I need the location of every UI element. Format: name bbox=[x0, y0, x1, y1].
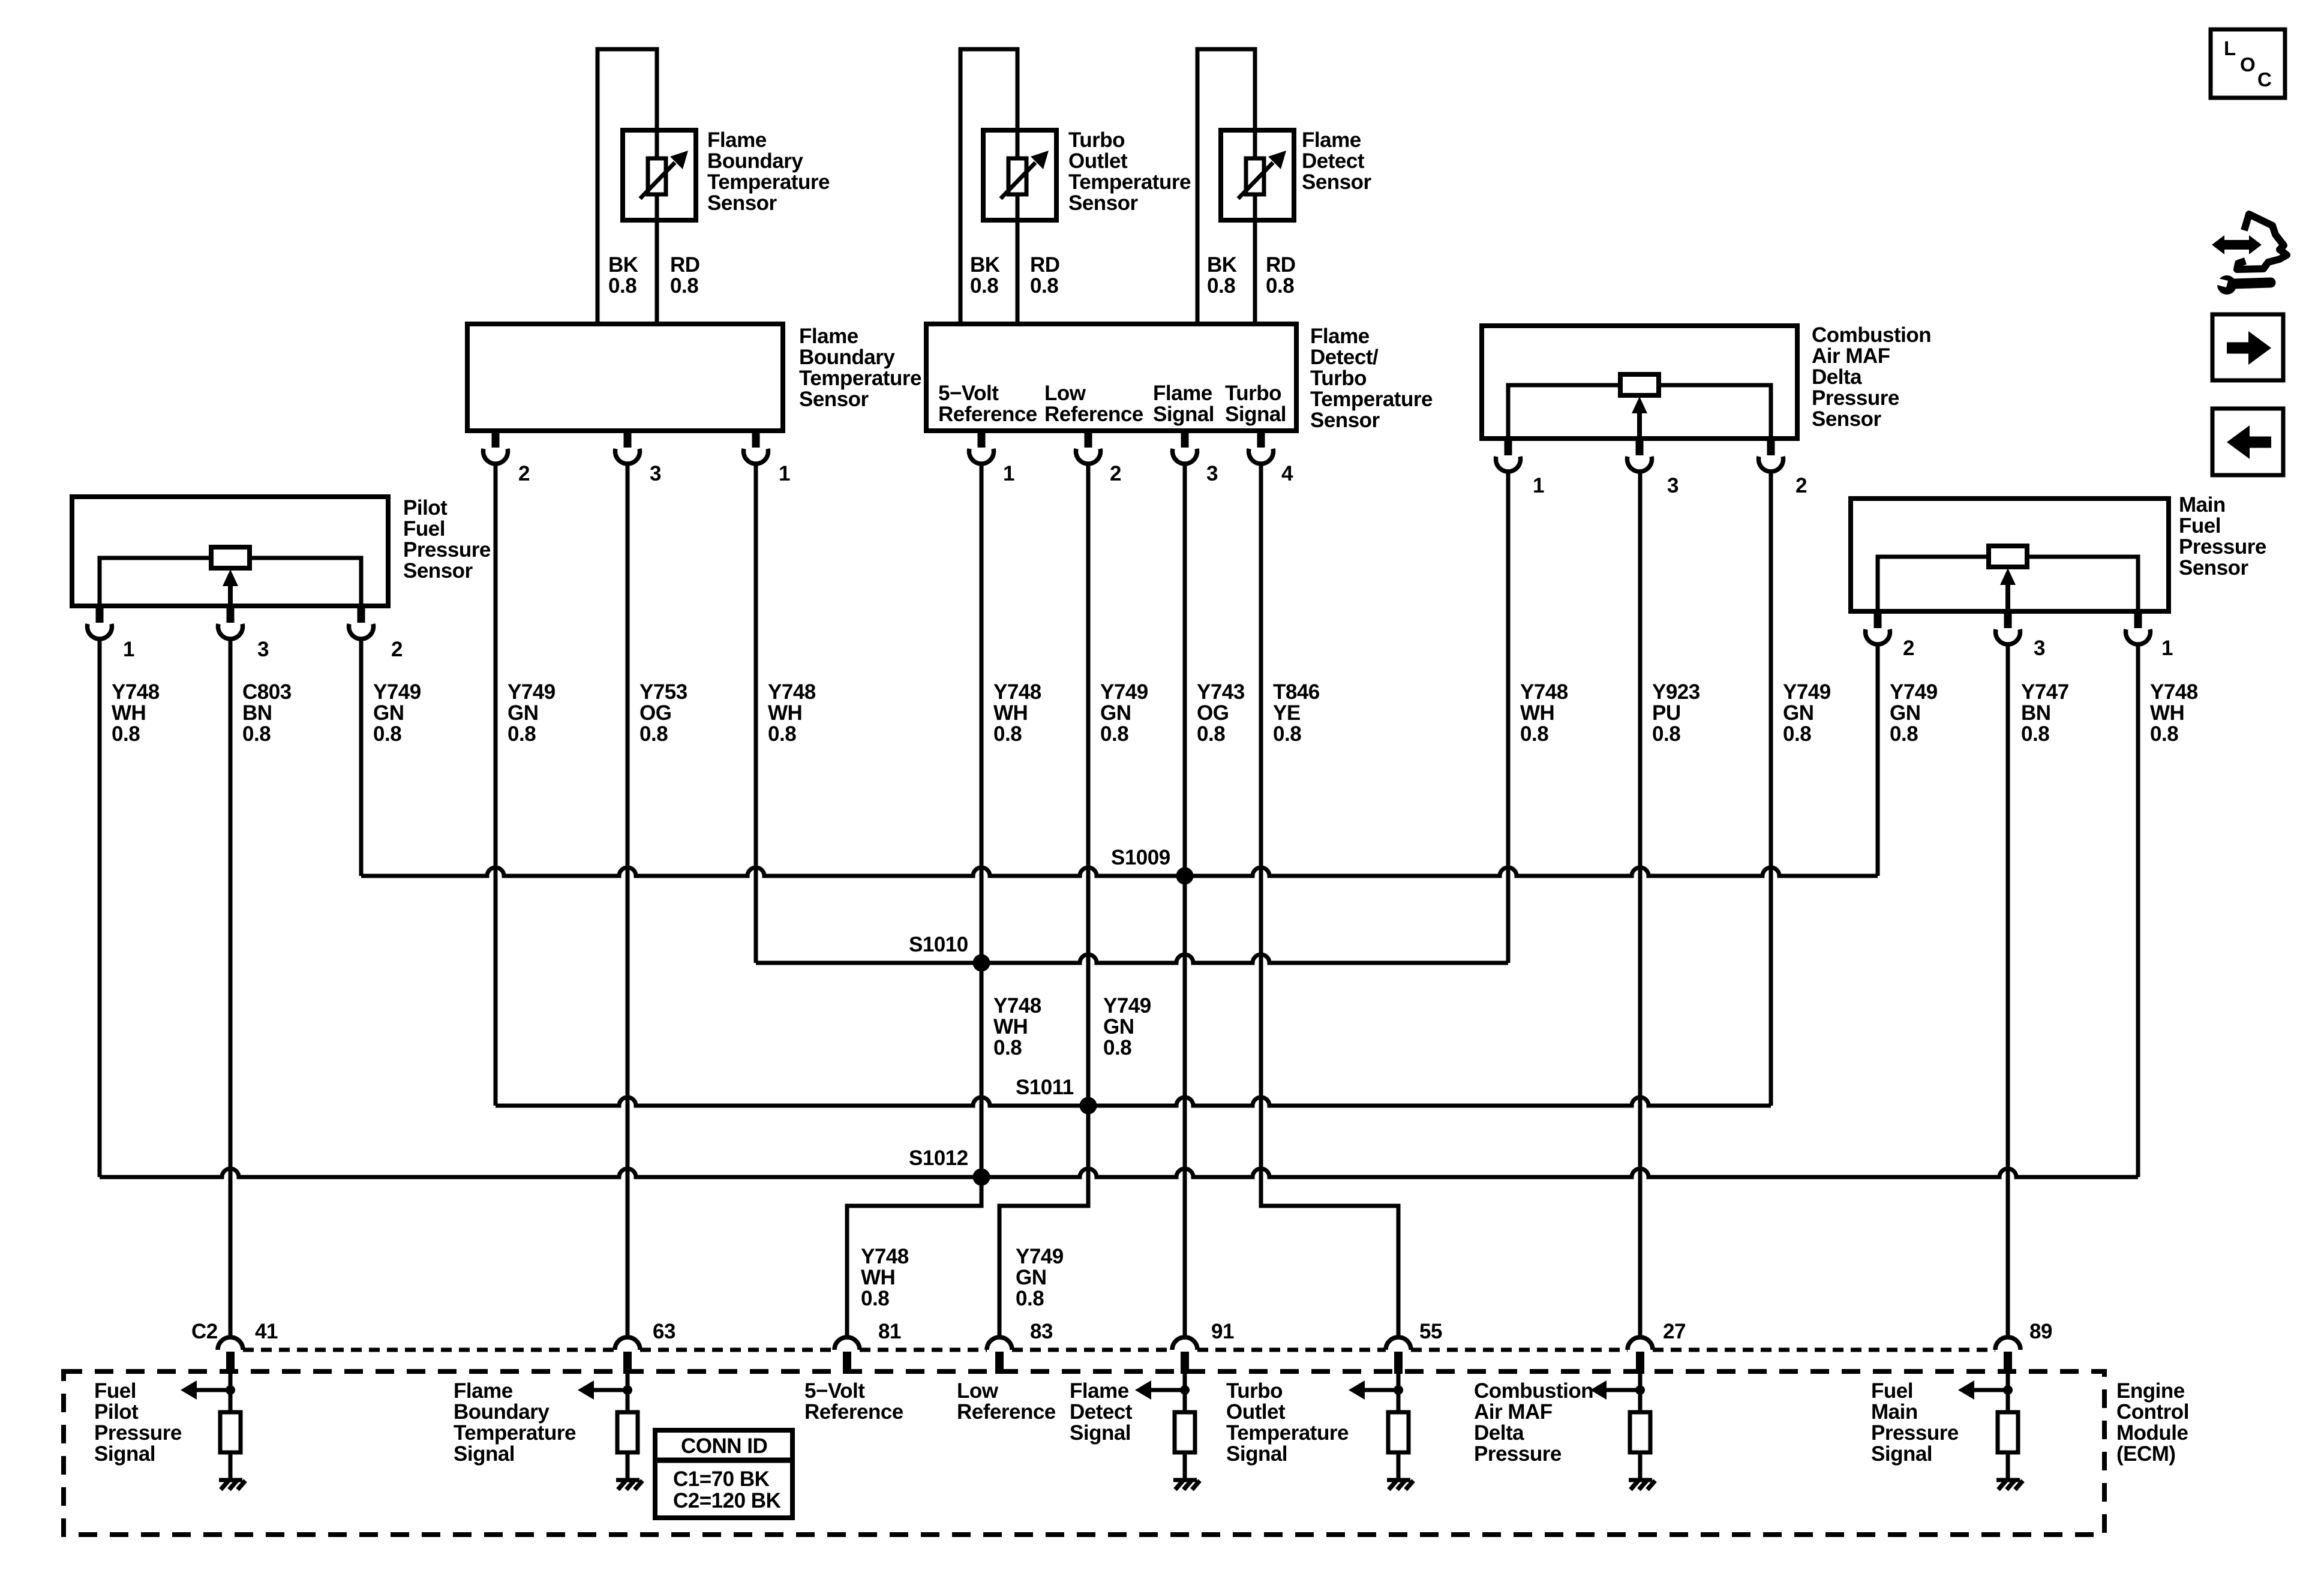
svg-text:Sensor: Sensor bbox=[403, 559, 473, 583]
svg-text:0.8: 0.8 bbox=[373, 722, 401, 746]
ECM signal name low reference bbox=[957, 1379, 1056, 1424]
wire label RD 0.8 (turbo outlet sensor) bbox=[1030, 253, 1060, 298]
svg-text:81: 81 bbox=[878, 1320, 901, 1343]
wire Y748 WH from MAF pin 1 to S1010 bbox=[1506, 472, 1511, 963]
wire loop of flame boundary temperature sensor (BK and RD leads) bbox=[597, 49, 657, 324]
svg-text:GN: GN bbox=[1783, 701, 1814, 725]
thermistor symbol flame detect sensor bbox=[1221, 130, 1294, 220]
svg-text:(ECM): (ECM) bbox=[2116, 1442, 2176, 1466]
svg-text:Outlet: Outlet bbox=[1226, 1400, 1286, 1424]
svg-text:Combustion: Combustion bbox=[1812, 323, 1931, 347]
ECM pin 63 terminal bbox=[615, 1320, 675, 1374]
wire label Y923 PU 0.8 (MAF pin3) bbox=[1652, 680, 1700, 746]
svg-text:0.8: 0.8 bbox=[1273, 722, 1301, 746]
pressure sensor symbol (main) bbox=[1878, 546, 2138, 611]
pin 1 flame detect/turbo connector bbox=[969, 431, 1015, 485]
svg-text:Sensor: Sensor bbox=[1302, 170, 1372, 194]
pin 2 main fuel pressure sensor bbox=[1866, 611, 1915, 660]
svg-text:Y749: Y749 bbox=[1783, 680, 1831, 704]
ECM pin 55 ground bbox=[1387, 1480, 1413, 1490]
wire label Y743 OG 0.8 (FDT pin3) bbox=[1197, 680, 1245, 746]
ECM pin 91 terminal bbox=[1172, 1320, 1234, 1374]
wire label Y748 WH 0.8 (between S1010 and S1012) bbox=[993, 994, 1041, 1059]
svg-text:4: 4 bbox=[1281, 462, 1293, 485]
label engine control module bbox=[2116, 1379, 2189, 1466]
svg-text:Signal: Signal bbox=[1871, 1442, 1932, 1466]
svg-text:Y749: Y749 bbox=[1016, 1245, 1064, 1268]
wire label Y749 GN 0.8 (FBT pin2) bbox=[508, 680, 556, 746]
svg-text:3: 3 bbox=[257, 638, 269, 661]
ECM pin 41 terminal bbox=[218, 1320, 278, 1374]
label flame boundary temperature sensor (connector) bbox=[799, 325, 921, 411]
label turbo outlet temperature sensor bbox=[1068, 128, 1191, 215]
svg-text:Fuel: Fuel bbox=[94, 1379, 136, 1403]
splice bus S1011 (low reference, FBT pin2 to MAF pin2) bbox=[496, 1097, 1771, 1106]
svg-text:0.8: 0.8 bbox=[508, 722, 536, 746]
svg-text:Y749: Y749 bbox=[1100, 680, 1148, 704]
pin 3 MAF delta pressure sensor bbox=[1627, 439, 1679, 497]
svg-text:PU: PU bbox=[1652, 701, 1681, 725]
pin 3 main fuel pressure sensor bbox=[1996, 611, 2046, 660]
svg-text:0.8: 0.8 bbox=[1100, 722, 1128, 746]
engine control module ECM dashed box bbox=[64, 1371, 2104, 1535]
svg-text:Flame: Flame bbox=[1153, 382, 1212, 405]
wire label Y748 WH 0.8 (pilot pin1) bbox=[112, 680, 160, 746]
svg-text:Y748: Y748 bbox=[2150, 680, 2198, 704]
label flame detect sensor bbox=[1302, 128, 1372, 194]
combustion air MAF delta pressure sensor box bbox=[1482, 326, 1797, 439]
ECM pin 91 pull resistor bbox=[1175, 1390, 1195, 1478]
svg-text:YE: YE bbox=[1273, 701, 1301, 725]
svg-text:Engine: Engine bbox=[2116, 1379, 2185, 1403]
ECM pin 27 internal wire and junction dot bbox=[1635, 1374, 1645, 1395]
ECM pin 27 pull resistor bbox=[1630, 1390, 1650, 1478]
ECM pin 55 pull resistor bbox=[1388, 1390, 1409, 1478]
wire label BK 0.8 (turbo outlet sensor) bbox=[970, 253, 1000, 298]
svg-text:S1012: S1012 bbox=[909, 1146, 968, 1170]
svg-text:Y748: Y748 bbox=[993, 994, 1041, 1017]
wire Y749 GN from MAF pin 2 to S1011 bbox=[1769, 472, 1773, 1106]
svg-text:Signal: Signal bbox=[1226, 1442, 1287, 1466]
svg-text:BK: BK bbox=[608, 253, 638, 277]
svg-text:OG: OG bbox=[639, 701, 671, 725]
svg-text:Air MAF: Air MAF bbox=[1812, 344, 1890, 368]
svg-text:Turbo: Turbo bbox=[1068, 128, 1125, 152]
svg-text:Temperature: Temperature bbox=[1310, 388, 1433, 411]
svg-text:Signal: Signal bbox=[1225, 403, 1286, 426]
svg-text:89: 89 bbox=[2029, 1320, 2052, 1343]
wire T846 YE from flame detect/turbo pin 4 jog to ECM pin 55 bbox=[1261, 464, 1398, 1337]
svg-text:OG: OG bbox=[1197, 701, 1229, 725]
wire Y923 PU from MAF pin 3 to ECM pin 27 bbox=[1638, 472, 1643, 1337]
forward arrow icon box bbox=[2212, 314, 2283, 380]
svg-text:Y748: Y748 bbox=[768, 680, 816, 704]
wire label Y748 WH 0.8 (to ECM pin 81) bbox=[861, 1245, 909, 1310]
svg-text:Y748: Y748 bbox=[112, 680, 160, 704]
svg-text:Low: Low bbox=[1044, 382, 1086, 405]
svg-text:GN: GN bbox=[1016, 1266, 1047, 1289]
svg-text:Detect/: Detect/ bbox=[1310, 346, 1379, 369]
svg-text:Y747: Y747 bbox=[2021, 680, 2069, 704]
ECM pin 91 ground bbox=[1173, 1480, 1200, 1490]
wire label C803 BN 0.8 (pilot pin3) bbox=[242, 680, 292, 746]
wire label Y748 WH 0.8 (main pin1) bbox=[2150, 680, 2198, 746]
svg-text:Outlet: Outlet bbox=[1068, 149, 1128, 173]
ECM pin 27 ground bbox=[1629, 1480, 1655, 1490]
splice bus S1010 (5V reference, FBT pin1 to MAF pin1) bbox=[756, 954, 1508, 963]
svg-text:Flame: Flame bbox=[1310, 325, 1370, 348]
svg-text:63: 63 bbox=[653, 1320, 675, 1343]
pin name Turbo Signal bbox=[1225, 382, 1286, 426]
svg-text:Temperature: Temperature bbox=[707, 170, 830, 194]
svg-text:RD: RD bbox=[1030, 253, 1060, 277]
svg-text:C803: C803 bbox=[242, 680, 292, 704]
wire label Y748 WH 0.8 (FBT pin1) bbox=[768, 680, 816, 746]
svg-text:WH: WH bbox=[861, 1266, 895, 1289]
svg-text:C2: C2 bbox=[191, 1320, 218, 1343]
svg-text:0.8: 0.8 bbox=[1207, 274, 1235, 298]
svg-text:0.8: 0.8 bbox=[112, 722, 140, 746]
svg-text:0.8: 0.8 bbox=[1016, 1287, 1044, 1310]
wire Y749 GN from pilot pin 2 to S1009 bbox=[359, 640, 364, 876]
svg-text:BK: BK bbox=[970, 253, 1000, 277]
svg-text:27: 27 bbox=[1663, 1320, 1686, 1343]
svg-text:Main: Main bbox=[1871, 1400, 1918, 1424]
svg-text:BN: BN bbox=[2021, 701, 2051, 725]
svg-text:Boundary: Boundary bbox=[799, 346, 895, 369]
svg-text:GN: GN bbox=[508, 701, 539, 725]
wire label Y749 GN 0.8 (FDT pin2) bbox=[1100, 680, 1148, 746]
svg-text:Reference: Reference bbox=[938, 403, 1037, 426]
LOC location icon box bbox=[2211, 29, 2285, 98]
svg-text:Flame: Flame bbox=[1302, 128, 1361, 152]
ECM pin 63 ground bbox=[616, 1480, 642, 1490]
wire Y749 GN from flame detect/turbo pin 2 jog to ECM pin 83 bbox=[999, 464, 1088, 1337]
svg-text:0.8: 0.8 bbox=[1266, 274, 1294, 298]
wire Y743 OG from flame detect pin 3 to ECM pin 91 bbox=[1183, 464, 1187, 1337]
svg-text:Detect: Detect bbox=[1302, 149, 1365, 173]
ECM pin 27 signal arrow bbox=[1590, 1380, 1640, 1400]
svg-text:0.8: 0.8 bbox=[670, 274, 698, 298]
svg-text:Sensor: Sensor bbox=[1812, 407, 1882, 431]
splice S1010 junction dot bbox=[973, 954, 990, 972]
svg-text:GN: GN bbox=[1890, 701, 1921, 725]
ECM pin 63 internal wire and junction dot bbox=[623, 1374, 632, 1395]
svg-text:WH: WH bbox=[768, 701, 802, 725]
pin 3 pilot fuel pressure sensor bbox=[218, 606, 269, 661]
pressure sensor symbol (pilot) bbox=[100, 547, 361, 606]
svg-text:91: 91 bbox=[1211, 1320, 1234, 1343]
main fuel pressure sensor box bbox=[1851, 499, 2169, 611]
pin 3 flame boundary temp sensor connector bbox=[615, 431, 662, 485]
pin name Low Reference bbox=[1044, 382, 1143, 426]
ECM pin 81 terminal bbox=[834, 1320, 901, 1374]
svg-text:Flame: Flame bbox=[707, 128, 767, 152]
wire label BK 0.8 (flame detect sensor) bbox=[1207, 253, 1237, 298]
svg-text:5−Volt: 5−Volt bbox=[804, 1379, 865, 1403]
svg-text:Y748: Y748 bbox=[1520, 680, 1568, 704]
svg-text:WH: WH bbox=[112, 701, 146, 725]
pin 2 flame detect/turbo connector bbox=[1076, 431, 1122, 485]
ECM signal name fuel pilot pressure signal bbox=[94, 1379, 182, 1466]
svg-text:1: 1 bbox=[2161, 637, 2173, 660]
svg-text:0.8: 0.8 bbox=[1030, 274, 1058, 298]
svg-text:0.8: 0.8 bbox=[993, 1036, 1022, 1059]
wire loop of turbo outlet temperature sensor bbox=[960, 49, 1017, 324]
svg-text:C2=120 BK: C2=120 BK bbox=[673, 1489, 781, 1512]
svg-text:Pilot: Pilot bbox=[403, 496, 448, 520]
svg-text:0.8: 0.8 bbox=[970, 274, 998, 298]
wire Y748 WH from FBT pin 1 to S1010 bbox=[754, 464, 758, 963]
wire label Y749 GN 0.8 (MAF pin2) bbox=[1783, 680, 1831, 746]
svg-text:RD: RD bbox=[670, 253, 700, 277]
label S1010 bbox=[909, 933, 968, 956]
svg-text:Y753: Y753 bbox=[639, 680, 687, 704]
svg-text:2: 2 bbox=[1903, 637, 1914, 660]
ECM pin 55 terminal bbox=[1386, 1320, 1442, 1374]
pin name 5-Volt Reference bbox=[938, 382, 1037, 426]
svg-text:RD: RD bbox=[1266, 253, 1296, 277]
svg-text:Sensor: Sensor bbox=[2179, 556, 2249, 580]
svg-text:Y749: Y749 bbox=[1890, 680, 1938, 704]
svg-text:T846: T846 bbox=[1273, 680, 1320, 704]
ECM pin 91 internal wire and junction dot bbox=[1180, 1374, 1190, 1395]
wire label Y749 GN 0.8 (to ECM pin 83) bbox=[1016, 1245, 1064, 1310]
svg-text:C1=70 BK: C1=70 BK bbox=[673, 1467, 770, 1491]
label C2 connector id at pin 41 bbox=[191, 1320, 218, 1343]
pin 1 pilot fuel pressure sensor bbox=[88, 606, 135, 661]
svg-text:WH: WH bbox=[993, 701, 1028, 725]
svg-text:CONN ID: CONN ID bbox=[681, 1434, 767, 1458]
svg-text:0.8: 0.8 bbox=[861, 1287, 889, 1310]
wire C803 BN from pilot pin 3 to ECM pin 41 bbox=[229, 640, 233, 1337]
svg-text:Y923: Y923 bbox=[1652, 680, 1700, 704]
label flame detect / turbo temperature sensor bbox=[1310, 325, 1433, 432]
svg-text:GN: GN bbox=[1100, 701, 1131, 725]
svg-text:5−Volt: 5−Volt bbox=[938, 382, 999, 405]
back arrow icon box bbox=[2212, 409, 2283, 475]
svg-text:WH: WH bbox=[1520, 701, 1554, 725]
pilot fuel pressure sensor box bbox=[72, 497, 388, 606]
svg-text:Pilot: Pilot bbox=[94, 1400, 139, 1424]
svg-text:Sensor: Sensor bbox=[1310, 409, 1380, 432]
connector box flame detect / turbo temperature sensor bbox=[926, 324, 1296, 431]
svg-text:1: 1 bbox=[123, 638, 134, 661]
wire label Y748 WH 0.8 (MAF pin1) bbox=[1520, 680, 1568, 746]
pin 2 MAF delta pressure sensor bbox=[1758, 439, 1807, 497]
svg-text:83: 83 bbox=[1030, 1320, 1053, 1343]
svg-text:Boundary: Boundary bbox=[454, 1400, 550, 1424]
svg-text:Flame: Flame bbox=[1070, 1379, 1129, 1403]
thermistor symbol turbo outlet temperature sensor bbox=[983, 130, 1056, 220]
ECM connector C2 boundary dashed line bbox=[243, 1348, 1995, 1352]
wire loop of flame detect sensor bbox=[1197, 49, 1255, 324]
svg-text:Y748: Y748 bbox=[993, 680, 1041, 704]
ECM signal name 5-volt reference bbox=[804, 1379, 903, 1424]
svg-text:0.8: 0.8 bbox=[1197, 722, 1225, 746]
svg-text:1: 1 bbox=[1533, 474, 1544, 497]
wire Y748 WH from pilot pin 1 to S1012 bbox=[98, 640, 102, 1177]
svg-text:0.8: 0.8 bbox=[2021, 722, 2049, 746]
svg-text:Y749: Y749 bbox=[373, 680, 421, 704]
ECM signal name flame boundary temperature signal bbox=[454, 1379, 576, 1466]
svg-text:GN: GN bbox=[1103, 1015, 1134, 1038]
ECM pin 41 internal wire and junction dot bbox=[226, 1374, 235, 1395]
connector box flame boundary temperature sensor bbox=[467, 324, 783, 431]
pin 1 MAF delta pressure sensor bbox=[1496, 439, 1545, 497]
svg-text:Pressure: Pressure bbox=[1871, 1421, 1959, 1445]
svg-text:Y749: Y749 bbox=[508, 680, 556, 704]
svg-text:Fuel: Fuel bbox=[2179, 514, 2221, 538]
svg-text:Turbo: Turbo bbox=[1226, 1379, 1283, 1403]
svg-text:GN: GN bbox=[373, 701, 404, 725]
svg-text:WH: WH bbox=[993, 1015, 1028, 1038]
svg-text:Turbo: Turbo bbox=[1310, 367, 1367, 390]
ECM signal name combustion air MAF delta pressure bbox=[1474, 1379, 1593, 1466]
svg-text:Flame: Flame bbox=[799, 325, 858, 348]
ECM pin 89 pull resistor bbox=[1998, 1390, 2018, 1478]
svg-text:Temperature: Temperature bbox=[1068, 170, 1191, 194]
svg-text:Low: Low bbox=[957, 1379, 999, 1403]
label pilot fuel pressure sensor bbox=[403, 496, 491, 583]
svg-text:Pressure: Pressure bbox=[1812, 386, 1899, 410]
svg-text:C: C bbox=[2257, 68, 2271, 91]
ECM pin 89 ground bbox=[1996, 1480, 2023, 1490]
wire label BK 0.8 (flame boundary sensor) bbox=[608, 253, 638, 298]
ECM signal name flame detect signal bbox=[1070, 1379, 1133, 1445]
wire Y748 WH from main pin 1 to S1012 bbox=[2136, 646, 2140, 1177]
svg-text:BN: BN bbox=[242, 701, 272, 725]
svg-text:Pressure: Pressure bbox=[2179, 535, 2266, 559]
pressure sensor symbol (MAF delta) bbox=[1508, 374, 1771, 439]
svg-text:Air MAF: Air MAF bbox=[1474, 1400, 1553, 1424]
wire Y747 BN from main pin 3 to ECM pin 89 bbox=[2006, 646, 2010, 1337]
svg-text:0.8: 0.8 bbox=[1520, 722, 1548, 746]
svg-text:Temperature: Temperature bbox=[1226, 1421, 1349, 1445]
splice S1009 junction dot bbox=[1176, 867, 1194, 885]
ECM pin 63 signal arrow bbox=[578, 1380, 627, 1400]
svg-text:2: 2 bbox=[518, 462, 530, 485]
svg-text:Main: Main bbox=[2179, 493, 2226, 517]
svg-text:Delta: Delta bbox=[1474, 1421, 1524, 1445]
svg-text:0.8: 0.8 bbox=[768, 722, 796, 746]
pin 1 main fuel pressure sensor bbox=[2125, 611, 2173, 660]
service information icon (connector outline with double arrow and wrench) bbox=[2212, 214, 2287, 295]
svg-text:3: 3 bbox=[1206, 462, 1218, 485]
svg-text:Sensor: Sensor bbox=[707, 191, 777, 215]
svg-text:0.8: 0.8 bbox=[1103, 1036, 1131, 1059]
svg-text:Combustion: Combustion bbox=[1474, 1379, 1593, 1403]
svg-text:S1011: S1011 bbox=[1016, 1076, 1074, 1099]
svg-text:0.8: 0.8 bbox=[1652, 722, 1680, 746]
svg-text:Signal: Signal bbox=[454, 1442, 515, 1466]
svg-text:Reference: Reference bbox=[957, 1400, 1056, 1424]
svg-text:Turbo: Turbo bbox=[1225, 382, 1281, 405]
svg-text:3: 3 bbox=[1667, 474, 1679, 497]
svg-text:Pressure: Pressure bbox=[1474, 1442, 1562, 1466]
svg-text:Boundary: Boundary bbox=[707, 149, 803, 173]
svg-text:S1010: S1010 bbox=[909, 933, 968, 956]
splice bus S1012 (5V reference, pilot pin1 to main pin1) bbox=[100, 1169, 2138, 1177]
svg-text:L: L bbox=[2224, 37, 2236, 59]
svg-text:41: 41 bbox=[255, 1320, 278, 1343]
svg-text:Detect: Detect bbox=[1070, 1400, 1133, 1424]
svg-text:2: 2 bbox=[1110, 462, 1121, 485]
wire label Y747 BN 0.8 (main pin3) bbox=[2021, 680, 2069, 746]
svg-text:Temperature: Temperature bbox=[454, 1421, 576, 1445]
svg-text:Delta: Delta bbox=[1812, 365, 1862, 389]
wire Y748 WH from flame detect/turbo pin 1 jog to ECM pin 81 bbox=[847, 464, 981, 1337]
wire label Y748 WH 0.8 (FDT pin1) bbox=[993, 680, 1041, 746]
svg-text:Temperature: Temperature bbox=[799, 367, 921, 390]
ECM signal name fuel main pressure signal bbox=[1871, 1379, 1959, 1466]
svg-text:0.8: 0.8 bbox=[1890, 722, 1918, 746]
svg-text:Y748: Y748 bbox=[861, 1245, 909, 1268]
svg-text:Fuel: Fuel bbox=[1871, 1379, 1913, 1403]
ECM pin 27 terminal bbox=[1628, 1320, 1686, 1374]
wire label Y749 GN 0.8 (between S1011 and jog) bbox=[1103, 994, 1151, 1059]
svg-text:Reference: Reference bbox=[1044, 403, 1143, 426]
svg-text:Signal: Signal bbox=[1070, 1421, 1131, 1445]
pin name Flame Signal bbox=[1153, 382, 1214, 426]
svg-text:Pressure: Pressure bbox=[403, 538, 491, 562]
wire label Y749 GN 0.8 (pilot pin2) bbox=[373, 680, 421, 746]
label main fuel pressure sensor bbox=[2179, 493, 2266, 580]
ECM pin 83 terminal bbox=[987, 1320, 1053, 1374]
svg-text:0.8: 0.8 bbox=[608, 274, 636, 298]
thermistor symbol flame boundary temperature sensor bbox=[623, 130, 696, 220]
ECM pin 89 internal wire and junction dot bbox=[2003, 1374, 2013, 1395]
ECM pin 55 internal wire and junction dot bbox=[1394, 1374, 1403, 1395]
svg-text:Signal: Signal bbox=[94, 1442, 155, 1466]
pin 2 pilot fuel pressure sensor bbox=[349, 606, 403, 661]
ECM pin 91 signal arrow bbox=[1135, 1380, 1185, 1400]
wire label Y749 GN 0.8 (main pin2) bbox=[1890, 680, 1938, 746]
svg-text:Fuel: Fuel bbox=[403, 517, 445, 541]
svg-text:0.8: 0.8 bbox=[993, 722, 1022, 746]
wire Y749 GN from FBT pin 2 to S1011 bbox=[494, 464, 498, 1106]
ECM pin 89 signal arrow bbox=[1958, 1380, 2008, 1400]
ECM signal name turbo outlet temperature signal bbox=[1226, 1379, 1349, 1466]
ECM pin 89 terminal bbox=[1995, 1320, 2052, 1374]
pin 1 flame boundary temp sensor connector bbox=[744, 431, 791, 485]
label combustion air MAF delta pressure sensor bbox=[1812, 323, 1931, 431]
ECM pin 55 signal arrow bbox=[1349, 1380, 1398, 1400]
wire Y753 OG from FBT pin 3 to ECM pin 63 bbox=[626, 464, 630, 1337]
splice bus S1009 (low reference, pilot pin2 to main pin2) bbox=[361, 867, 1878, 876]
label S1009 bbox=[1111, 846, 1170, 869]
ECM pin 41 signal arrow bbox=[181, 1380, 230, 1400]
svg-text:Sensor: Sensor bbox=[799, 388, 869, 411]
svg-text:Control: Control bbox=[2116, 1400, 2189, 1424]
svg-text:2: 2 bbox=[391, 638, 403, 661]
wire label Y753 OG 0.8 (FBT pin3) bbox=[639, 680, 687, 746]
svg-text:Y743: Y743 bbox=[1197, 680, 1245, 704]
wire label RD 0.8 (flame boundary sensor) bbox=[670, 253, 700, 298]
svg-text:0.8: 0.8 bbox=[2150, 722, 2178, 746]
svg-text:0.8: 0.8 bbox=[1783, 722, 1811, 746]
wire label RD 0.8 (flame detect sensor) bbox=[1266, 253, 1296, 298]
pin 2 flame boundary temp sensor connector bbox=[483, 431, 530, 485]
label S1012 bbox=[909, 1146, 968, 1170]
wire Y749 GN from main pin 2 to S1009 bbox=[1876, 646, 1880, 876]
ECM pin 41 pull resistor bbox=[220, 1390, 241, 1478]
svg-text:3: 3 bbox=[650, 462, 661, 485]
svg-text:1: 1 bbox=[1003, 462, 1014, 485]
svg-text:WH: WH bbox=[2150, 701, 2184, 725]
splice S1012 junction dot bbox=[973, 1169, 990, 1186]
svg-text:1: 1 bbox=[779, 462, 790, 485]
